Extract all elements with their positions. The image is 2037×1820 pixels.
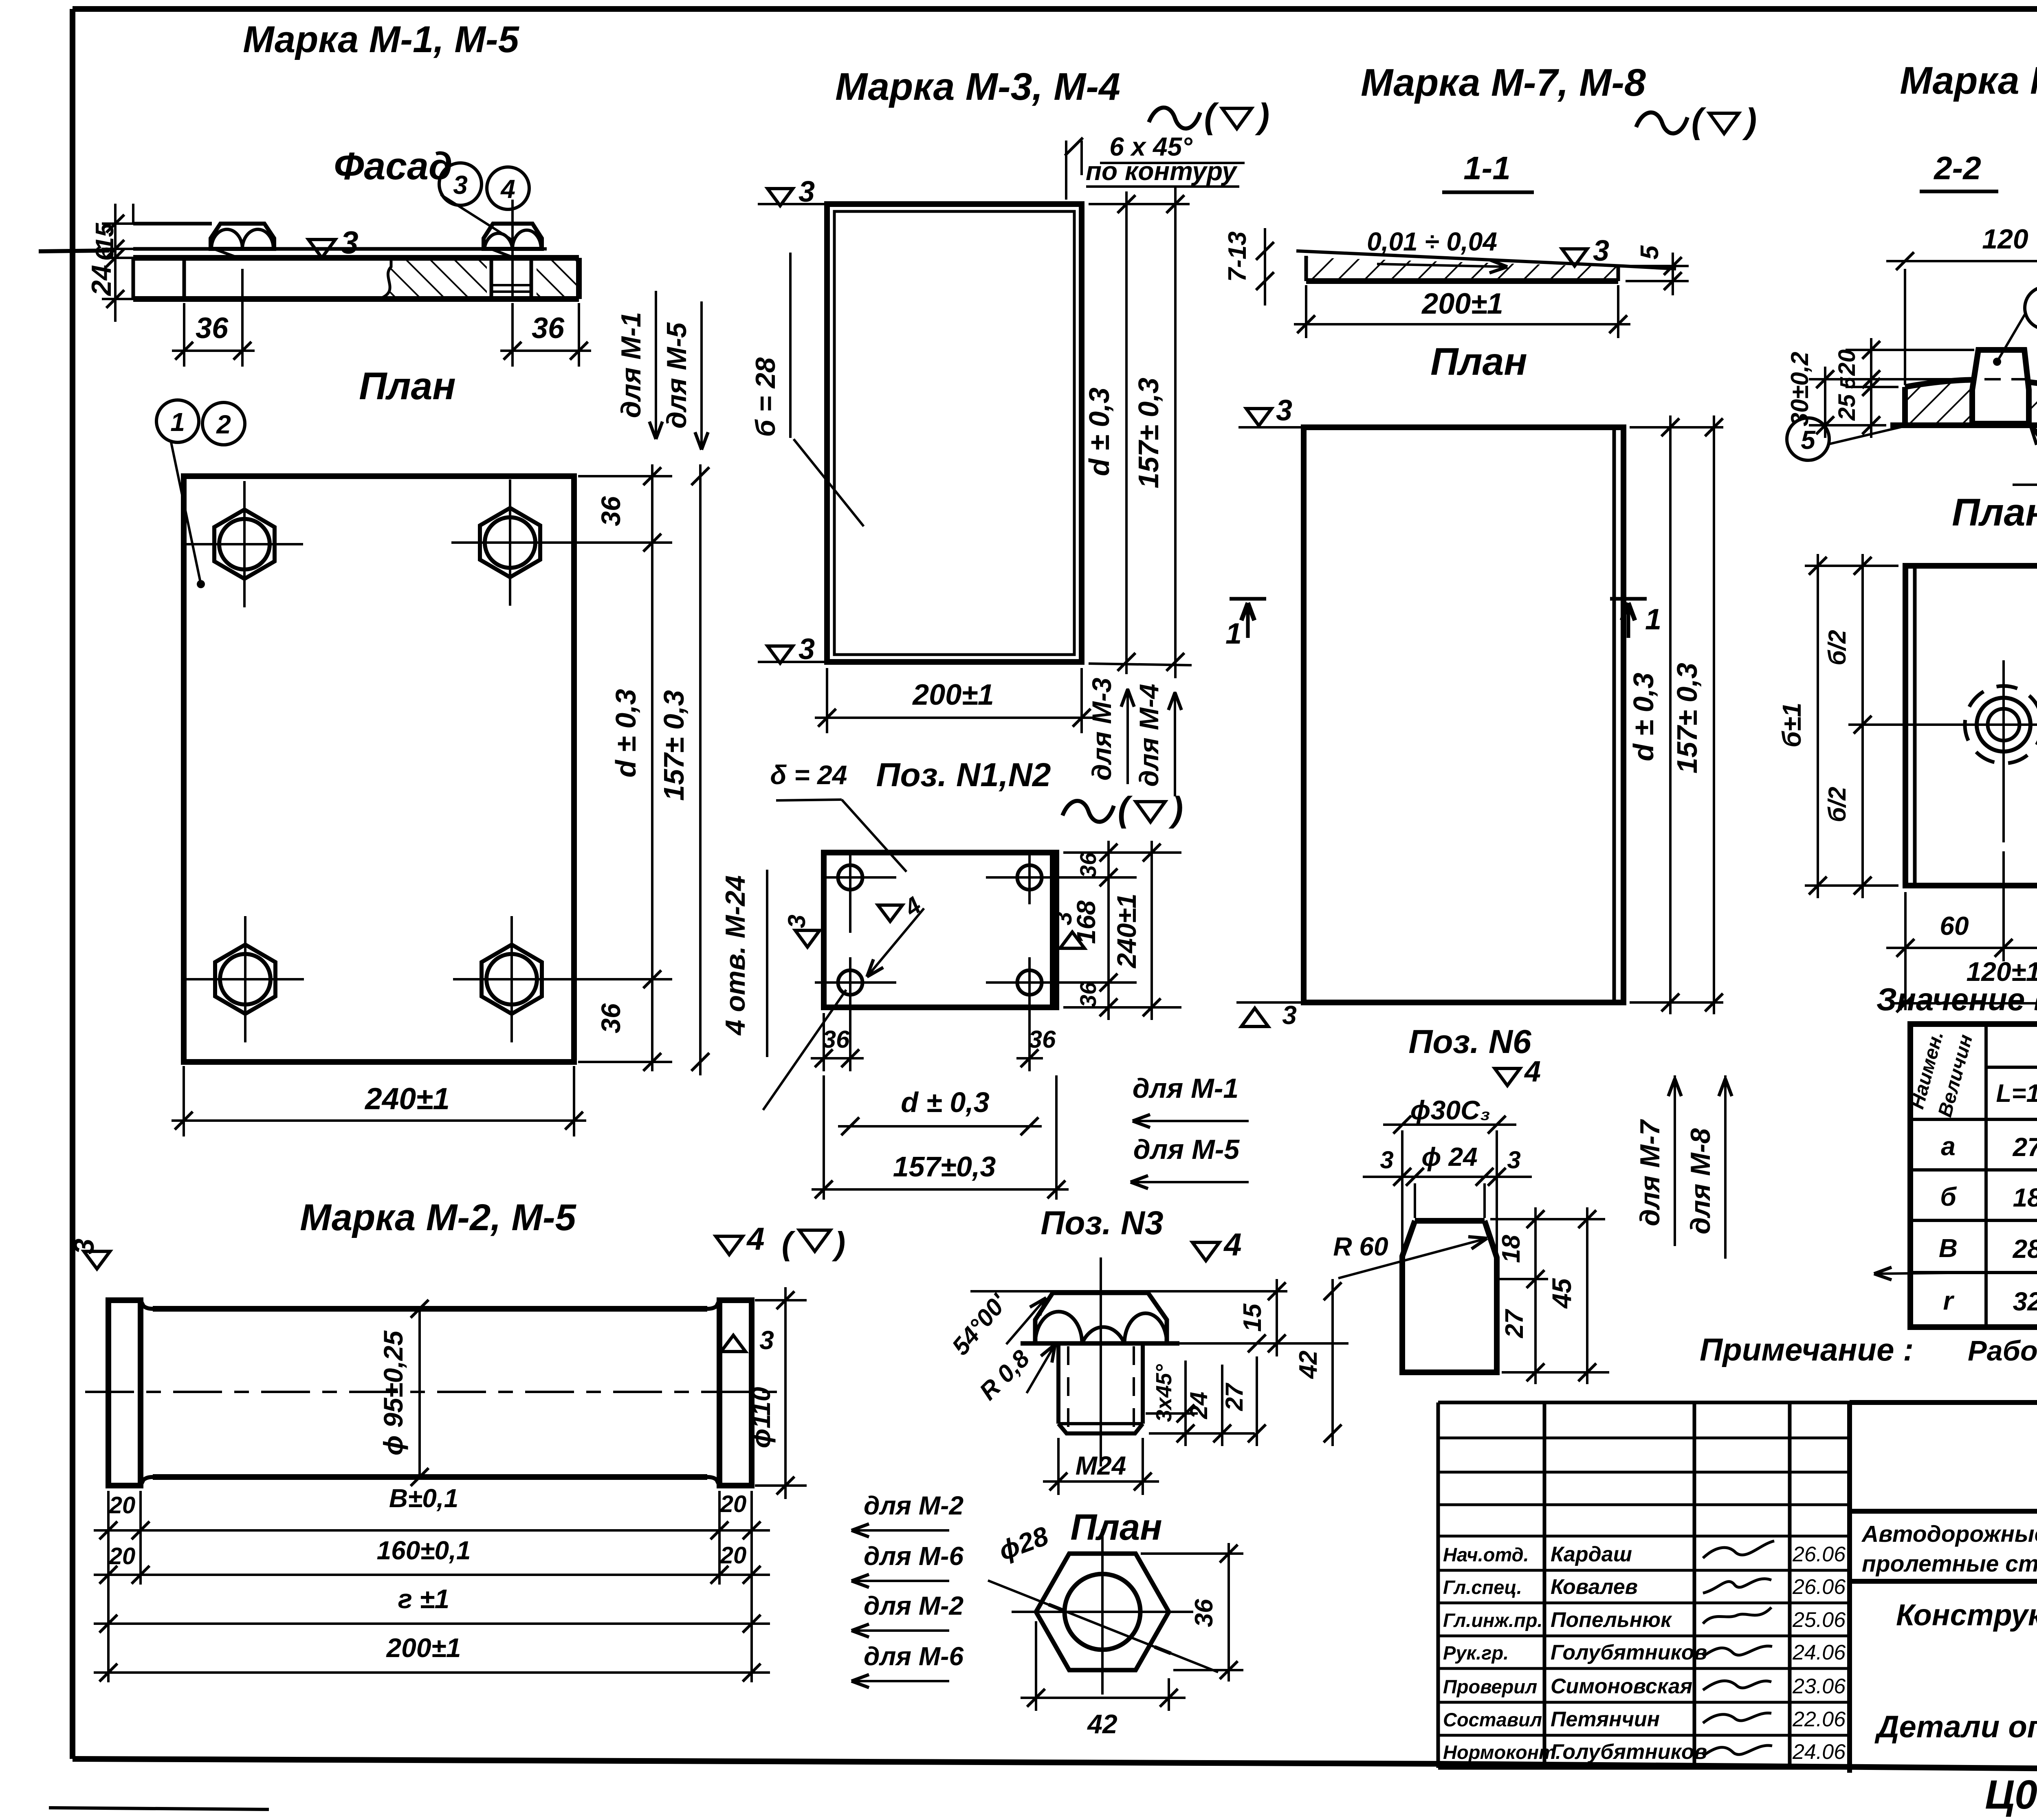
surface mark 3 on facade bbox=[308, 240, 335, 258]
surface mark 3 top-left (М-2) bbox=[84, 1251, 110, 1269]
svg-text:d ± 0,3: d ± 0,3 bbox=[1628, 673, 1659, 761]
М-9 plan left dim б±1 bbox=[1805, 565, 1898, 567]
svg-text:Работать совместно с листом №2: Работать совместно с листом №29. bbox=[1968, 1335, 2037, 1367]
labels для М-7 / для М-8 bbox=[1674, 1075, 1676, 1246]
svg-text:36: 36 bbox=[196, 312, 229, 345]
sheet frame border bbox=[73, 6, 2037, 12]
svg-text:Составил: Составил bbox=[1443, 1709, 1542, 1730]
svg-text:20: 20 bbox=[109, 1492, 136, 1519]
svg-text:4: 4 bbox=[1223, 1227, 1241, 1262]
М-9 stud on top bbox=[1972, 350, 2029, 424]
svg-text:б: б bbox=[1940, 1182, 1957, 1211]
svg-text:120: 120 bbox=[1982, 224, 2028, 255]
svg-text:4: 4 bbox=[1524, 1055, 1541, 1088]
svg-text:160±0,1: 160±0,1 bbox=[377, 1536, 471, 1565]
svg-text:3: 3 bbox=[1380, 1146, 1393, 1174]
svg-text:4: 4 bbox=[500, 174, 515, 204]
svg-text:42: 42 bbox=[1087, 1709, 1117, 1739]
М-7 dim 157±0,3 bbox=[1713, 415, 1715, 1014]
svg-text:240±1: 240±1 bbox=[364, 1081, 450, 1116]
dim ф95±0,25 bbox=[418, 1309, 421, 1477]
svg-text:для М-6: для М-6 bbox=[864, 1541, 964, 1571]
signature table grid bbox=[1438, 1401, 1850, 1405]
svg-text:27: 27 bbox=[1221, 1383, 1248, 1411]
svg-text:5: 5 bbox=[1801, 425, 1816, 455]
section mark 1 right bbox=[1610, 597, 1647, 601]
svg-text:3: 3 bbox=[68, 1238, 100, 1254]
svg-text:d ± 0,3: d ± 0,3 bbox=[610, 689, 642, 777]
svg-text:б = 28: б = 28 bbox=[750, 357, 781, 437]
svg-text:3: 3 bbox=[783, 914, 810, 928]
leader line from circle 1 bbox=[171, 442, 201, 584]
hole bottom-right bbox=[1017, 970, 1042, 995]
svg-text:для М-4: для М-4 bbox=[1134, 684, 1164, 787]
svg-text:б/2: б/2 bbox=[1824, 630, 1851, 665]
dim ф110 bbox=[755, 1299, 807, 1301]
svg-text:5: 5 bbox=[1636, 245, 1664, 259]
svg-text:План: План bbox=[359, 365, 456, 408]
stray bottom-left line bbox=[49, 1808, 269, 1809]
table row lines bbox=[1986, 1066, 2037, 1069]
svg-text:280: 280 bbox=[2013, 1234, 2037, 1264]
svg-text:157± 0,3: 157± 0,3 bbox=[1133, 378, 1164, 488]
svg-text:Ковалев: Ковалев bbox=[1551, 1575, 1638, 1599]
svg-text:Примечание :: Примечание : bbox=[1700, 1332, 1914, 1367]
plan dim 36 bottom-right bbox=[548, 978, 672, 980]
facade left dim chain 15 6 24 bbox=[132, 204, 134, 224]
М-9 plan dim 120±1 bbox=[1893, 1002, 2037, 1005]
roughness symbol (поз1) bbox=[1062, 801, 1114, 822]
leader circle 4 bbox=[487, 167, 529, 209]
svg-text:б/2: б/2 bbox=[1824, 787, 1851, 822]
svg-text:Фасад: Фасад bbox=[334, 145, 452, 188]
roller body М-2 bbox=[108, 1300, 141, 1486]
leader circle 6 bbox=[2025, 287, 2037, 329]
svg-text:для М-2: для М-2 bbox=[864, 1491, 964, 1520]
svg-text:d ± 0,3: d ± 0,3 bbox=[1083, 387, 1115, 476]
svg-text:7-13: 7-13 bbox=[1223, 231, 1252, 282]
svg-text:200±1: 200±1 bbox=[385, 1633, 461, 1663]
hole bottom-left bbox=[838, 970, 862, 995]
bolt shank below right nut bbox=[490, 258, 493, 299]
svg-text:45: 45 bbox=[1546, 1278, 1577, 1309]
plan dim 240±1 bbox=[183, 1066, 185, 1136]
svg-text:Гл.инж.пр.: Гл.инж.пр. bbox=[1443, 1609, 1543, 1631]
svg-text:157± 0,3: 157± 0,3 bbox=[658, 690, 690, 801]
svg-text:Рук.гр.: Рук.гр. bbox=[1443, 1642, 1509, 1664]
svg-text:26.06: 26.06 bbox=[1792, 1575, 1846, 1599]
М-9 plan circles bbox=[1988, 709, 2019, 741]
plan plate M-1 rectangle bbox=[184, 476, 574, 1062]
svg-text:План: План bbox=[1952, 491, 2037, 534]
surface mark 4 (поз3) bbox=[1192, 1242, 1219, 1261]
svg-text:157±0,3: 157±0,3 bbox=[893, 1151, 996, 1183]
bolt centerline bbox=[1100, 1257, 1102, 1466]
svg-text:d ± 0,3: d ± 0,3 bbox=[901, 1086, 989, 1118]
М-9 left dim chain 20 5 25 bbox=[1846, 349, 1974, 351]
svg-text:60: 60 bbox=[1940, 911, 1969, 941]
svg-text:для М-1: для М-1 bbox=[616, 312, 647, 418]
title block main outline bbox=[1850, 1400, 2037, 1405]
поз1 right dim chain 36 168 36 240±1 bbox=[1063, 851, 1181, 854]
svg-text:1: 1 bbox=[1225, 618, 1242, 650]
svg-text:Значение величин а,б,В,г: Значение величин а,б,В,г bbox=[1876, 981, 2037, 1017]
plate М-3 rectangle double contour bbox=[827, 204, 1082, 662]
surface mark 3 right (поз1) bbox=[1060, 932, 1084, 948]
поз1 dim 157±0,3 bbox=[1055, 1075, 1058, 1200]
svg-text:36: 36 bbox=[596, 496, 626, 526]
arrow at row г bbox=[1874, 1273, 1986, 1274]
svg-text:36: 36 bbox=[1190, 1599, 1218, 1627]
М-9 plan dims б/2 б/2 bbox=[1861, 554, 1864, 898]
svg-text:15: 15 bbox=[1238, 1303, 1267, 1332]
svg-text:2: 2 bbox=[216, 410, 231, 439]
svg-text:δ = 24: δ = 24 bbox=[770, 760, 847, 790]
plan dim d±0,3 bbox=[651, 468, 653, 1071]
svg-text:В±0,1: В±0,1 bbox=[389, 1484, 458, 1513]
surface mark 4 diagonal leader bbox=[878, 905, 902, 921]
поз1 bottom dims 36 bbox=[823, 1013, 825, 1071]
svg-text:a: a bbox=[1941, 1132, 1956, 1161]
1-1 right dim 5 bbox=[1626, 265, 1689, 267]
svg-text:36: 36 bbox=[823, 1026, 850, 1053]
svg-text:36: 36 bbox=[1029, 1026, 1056, 1053]
bolt dim 27 bbox=[1256, 1356, 1258, 1446]
svg-text:20: 20 bbox=[1834, 349, 1860, 376]
svg-text:1: 1 bbox=[170, 407, 185, 437]
svg-text:L=12м: L=12м bbox=[1996, 1079, 2037, 1108]
М-3 dim d±0,3 bbox=[1089, 203, 1190, 205]
rotated labels для М-3 / для М-4 bbox=[1126, 688, 1129, 784]
svg-text:18: 18 bbox=[1497, 1235, 1525, 1263]
svg-text:Гл.спец.: Гл.спец. bbox=[1443, 1576, 1522, 1598]
поз1 dim d±0,3 bbox=[838, 1125, 1042, 1128]
rotated labels для М-1 / для М-5 (facade) bbox=[655, 291, 657, 439]
bolt dim 24 bbox=[1149, 1432, 1255, 1435]
bolt shank bbox=[1056, 1343, 1060, 1424]
svg-text:3: 3 bbox=[1593, 235, 1609, 267]
svg-text:Петянчин: Петянчин bbox=[1551, 1708, 1660, 1731]
leader circle 5 bbox=[1787, 418, 1829, 460]
svg-text:30±0,2: 30±0,2 bbox=[1786, 352, 1813, 426]
svg-text:200±1: 200±1 bbox=[912, 679, 994, 711]
plan hex nut top-left bbox=[214, 510, 275, 579]
svg-text:для М-1: для М-1 bbox=[1133, 1073, 1238, 1104]
svg-text:180: 180 bbox=[2013, 1183, 2037, 1212]
1-1 left dim 7-13 bbox=[1264, 228, 1266, 251]
svg-text:План: План bbox=[1430, 340, 1527, 383]
svg-text:23.06: 23.06 bbox=[1792, 1675, 1846, 1698]
М-3 dim 157±0,3 bbox=[1174, 187, 1177, 678]
svg-text:Марка М-9: Марка М-9 bbox=[1900, 59, 2037, 102]
svg-text:Конструкции и детали: Конструкции и детали bbox=[1896, 1598, 2037, 1632]
plan dim 36 top-right bbox=[578, 475, 672, 477]
1-1 bottom dim 200±1 bbox=[1305, 285, 1307, 338]
svg-text:4: 4 bbox=[746, 1221, 764, 1257]
поз3 dim 42 bbox=[1035, 1621, 1037, 1711]
svg-text:М24: М24 bbox=[1076, 1451, 1126, 1480]
section mark 1 left bbox=[1230, 597, 1266, 601]
svg-text:1-1: 1-1 bbox=[1463, 150, 1511, 186]
bolt dim 15 bbox=[1171, 1290, 1287, 1292]
bolt dim 42 bbox=[1331, 1279, 1334, 1446]
plan dim 157±0,3 bbox=[699, 464, 702, 1075]
svg-text:В: В bbox=[1939, 1233, 1958, 1263]
поз3 dim 36 bbox=[1141, 1552, 1243, 1555]
stray dash left margin bbox=[39, 251, 109, 251]
svg-text:24.06: 24.06 bbox=[1792, 1641, 1846, 1664]
svg-text:24.06: 24.06 bbox=[1792, 1740, 1846, 1764]
surface mark 3 (1-1) bbox=[1562, 249, 1587, 266]
left cap nut side view bbox=[211, 224, 274, 249]
centerline right nut bbox=[511, 200, 514, 297]
svg-text:План: План bbox=[1070, 1507, 1162, 1548]
svg-text:2-2: 2-2 bbox=[1933, 150, 1981, 186]
svg-text:22.06: 22.06 bbox=[1792, 1708, 1846, 1731]
М-9 plan rectangle bbox=[1905, 566, 2037, 886]
svg-text:ϕ 95±0,25: ϕ 95±0,25 bbox=[378, 1330, 408, 1456]
svg-text:Поз. N1,N2: Поз. N1,N2 bbox=[876, 756, 1051, 794]
svg-text:ϕ30C₃: ϕ30C₃ bbox=[1410, 1095, 1491, 1125]
bolt dim М24 bbox=[1057, 1438, 1060, 1495]
hatching right part of facade plate bbox=[379, 258, 487, 299]
М-7 dim d±0,3 bbox=[1630, 426, 1723, 429]
hole top-right bbox=[1017, 865, 1042, 890]
svg-text:25: 25 bbox=[1834, 394, 1860, 421]
svg-text:36: 36 bbox=[532, 312, 565, 345]
svg-text:277: 277 bbox=[2013, 1132, 2037, 1162]
svg-text:Нач.отд.: Нач.отд. bbox=[1443, 1544, 1529, 1565]
facade thin cover lines left bbox=[133, 222, 212, 226]
М-9 left dim 30±0,2 bbox=[1809, 378, 1968, 380]
hole top-left bbox=[838, 865, 862, 890]
svg-text:320: 320 bbox=[2013, 1287, 2037, 1316]
svg-text:Симоновская: Симоновская bbox=[1551, 1675, 1692, 1698]
surface mark 4(v) bbox=[716, 1236, 743, 1255]
roughness symbol (М-7) bbox=[1636, 112, 1687, 133]
svg-text:Проверил: Проверил bbox=[1443, 1676, 1537, 1697]
svg-text:Кардаш: Кардаш bbox=[1551, 1543, 1632, 1566]
facade dim 36 left bbox=[183, 303, 185, 367]
table outer border bbox=[1910, 1024, 2037, 1327]
svg-text:Детали опорных частей: Детали опорных частей bbox=[1874, 1710, 2037, 1744]
svg-text:240±1: 240±1 bbox=[1111, 893, 1142, 969]
tri mark 3 (М-2) bbox=[721, 1335, 746, 1352]
svg-text:ϕ110: ϕ110 bbox=[746, 1387, 776, 1449]
svg-text:Нормоконт.: Нормоконт. bbox=[1443, 1741, 1561, 1763]
svg-text:ϕ 24: ϕ 24 bbox=[1421, 1142, 1477, 1172]
bolt dim 3x45° bbox=[1146, 1412, 1198, 1415]
svg-text:27: 27 bbox=[1500, 1309, 1529, 1338]
plate поз1 rectangle bbox=[824, 853, 1056, 1007]
svg-text:3: 3 bbox=[1282, 1000, 1297, 1030]
М-7 plan rectangle bbox=[1304, 427, 1623, 1002]
svg-text:3: 3 bbox=[1507, 1146, 1520, 1174]
М-9 section body bbox=[1905, 380, 2037, 425]
surface mark 3 left (поз1) bbox=[795, 930, 820, 947]
svg-text:20: 20 bbox=[720, 1491, 747, 1517]
roughness symbol (М-3) bbox=[1149, 108, 1200, 128]
svg-text:для М-3: для М-3 bbox=[1087, 678, 1117, 781]
surface mark 3 (М-7 plan top) bbox=[1246, 409, 1271, 426]
svg-text:для М-8: для М-8 bbox=[1685, 1128, 1716, 1235]
svg-text:для М-6: для М-6 bbox=[864, 1642, 964, 1671]
roller centerline bbox=[85, 1391, 788, 1393]
svg-text:для М-5: для М-5 bbox=[661, 322, 692, 429]
svg-text:г ±1: г ±1 bbox=[398, 1584, 450, 1614]
svg-text:Автодорожные железобетонные те: Автодорожные железобетонные температурно… bbox=[1861, 1521, 2037, 1547]
bolt top line bbox=[970, 1290, 1273, 1292]
svg-text:3: 3 bbox=[341, 224, 358, 260]
chamfer extension lines bbox=[1065, 141, 1067, 200]
М-2 dim row В±0,1 bbox=[107, 1491, 110, 1682]
svg-text:5: 5 bbox=[1836, 376, 1860, 389]
svg-text:200±1: 200±1 bbox=[1421, 288, 1503, 320]
leader line to nut bbox=[441, 195, 514, 241]
svg-text:36: 36 bbox=[596, 1003, 626, 1033]
svg-text:Марка М-7, М-8: Марка М-7, М-8 bbox=[1361, 61, 1646, 104]
leader circle 3 bbox=[439, 163, 482, 205]
surface mark 4 (поз6) bbox=[1495, 1068, 1520, 1086]
bolt head flat top with chamfers bbox=[1035, 1293, 1167, 1343]
svg-text:R 60: R 60 bbox=[1333, 1232, 1388, 1261]
svg-text:Ц00629-02: Ц00629-02 bbox=[1985, 1772, 2037, 1818]
svg-text:Попельнюк: Попельнюк bbox=[1551, 1608, 1672, 1632]
plan hex nut bottom-right bbox=[482, 945, 542, 1014]
facade plate M-1 section bbox=[133, 255, 579, 261]
svg-text:26.06: 26.06 bbox=[1792, 1543, 1846, 1566]
svg-text:25.06: 25.06 bbox=[1792, 1608, 1846, 1632]
tri mark 3 (М-7 plan bottom) bbox=[1241, 1008, 1268, 1026]
svg-text:для М-2: для М-2 bbox=[864, 1591, 964, 1620]
leader circle 2 bbox=[202, 402, 245, 445]
leader circle 1 bbox=[156, 400, 199, 442]
right cap nut side view bbox=[484, 224, 542, 249]
svg-text:157± 0,3: 157± 0,3 bbox=[1671, 663, 1703, 774]
svg-text:Поз. N6: Поз. N6 bbox=[1408, 1023, 1532, 1060]
svg-text:4 отв. М-24: 4 отв. М-24 bbox=[720, 875, 751, 1036]
svg-text:24: 24 bbox=[1185, 1392, 1212, 1420]
svg-text:Марка М-1, М-5: Марка М-1, М-5 bbox=[243, 19, 519, 60]
section 1-1 wedge bbox=[1296, 251, 1676, 269]
plan hex nut top-right bbox=[480, 508, 540, 577]
svg-text:3x45°: 3x45° bbox=[1152, 1364, 1176, 1422]
svg-text:1: 1 bbox=[1645, 603, 1661, 636]
svg-text:20: 20 bbox=[720, 1542, 747, 1569]
svg-text:3: 3 bbox=[453, 170, 468, 200]
svg-text:Марка М-3, М-4: Марка М-3, М-4 bbox=[835, 65, 1120, 108]
svg-text:r: r bbox=[1943, 1286, 1955, 1315]
surface mark 3 bottom-left (М-3) bbox=[768, 646, 793, 663]
svg-text:по контуру: по контуру bbox=[1086, 156, 1238, 186]
svg-text:3: 3 bbox=[759, 1325, 774, 1355]
svg-text:для М-7: для М-7 bbox=[1634, 1119, 1665, 1227]
svg-text:для М-5: для М-5 bbox=[1133, 1134, 1240, 1165]
svg-text:20: 20 bbox=[109, 1543, 136, 1569]
М-3 dim 200±1 bbox=[826, 668, 828, 733]
svg-text:3: 3 bbox=[1276, 394, 1292, 427]
svg-text:36: 36 bbox=[1075, 982, 1101, 1007]
frame bottom under title block bbox=[1438, 1764, 2037, 1773]
table column lines bbox=[1984, 1024, 1988, 1327]
svg-text:168: 168 bbox=[1071, 900, 1101, 944]
svg-text:6: 6 bbox=[91, 246, 119, 261]
hex nut plan (поз3) bbox=[1036, 1554, 1169, 1670]
facade dim 36 right bbox=[511, 303, 514, 367]
svg-text:36: 36 bbox=[1075, 852, 1101, 878]
поз6 plug body bbox=[1415, 1218, 1485, 1224]
svg-text:Голубятников: Голубятников bbox=[1551, 1740, 1707, 1764]
svg-text:Голубятников: Голубятников bbox=[1551, 1641, 1707, 1664]
surface mark 3 top-left (М-3) bbox=[768, 189, 793, 206]
svg-text:Поз. N3: Поз. N3 bbox=[1040, 1205, 1163, 1242]
svg-text:б±1: б±1 bbox=[1777, 703, 1806, 747]
plan hex nut bottom-left bbox=[215, 945, 275, 1014]
svg-text:0,01 ÷ 0,04: 0,01 ÷ 0,04 bbox=[1367, 227, 1497, 256]
svg-text:42: 42 bbox=[1294, 1351, 1322, 1380]
svg-text:Марка М-2, М-5: Марка М-2, М-5 bbox=[300, 1197, 576, 1238]
М-9 plan bottom dims 60 60 bbox=[1904, 892, 1907, 1010]
поз6 right dim 18 / 27 / 45 bbox=[1490, 1218, 1605, 1220]
svg-text:пролетные строения из пустотны: пролетные строения из пустотных плит дли… bbox=[1862, 1551, 2037, 1577]
svg-text:24: 24 bbox=[86, 265, 117, 297]
